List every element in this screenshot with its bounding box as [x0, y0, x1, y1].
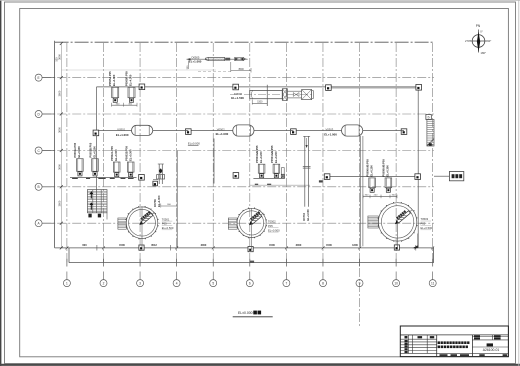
- svg-text:0°: 0°: [480, 29, 483, 33]
- dashed link line: [198, 70, 231, 72]
- pump P0508A/B: [385, 178, 392, 192]
- control room leader line: [434, 175, 449, 177]
- revision row marks: [405, 340, 408, 342]
- vessel D0508 body: [250, 90, 283, 98]
- tank T0501 centerline: [141, 207, 143, 248]
- pump P0504A/B: [273, 164, 280, 178]
- foundation dimension tick: [139, 247, 142, 250]
- tank nozzle flange: [118, 218, 126, 229]
- page right edge: [518, 0, 520, 366]
- cluster2 dimension marks: [255, 184, 258, 185]
- pump P0505A: [112, 87, 119, 102]
- dimension tick: [60, 76, 63, 79]
- vessel V0502 body: [233, 125, 254, 136]
- control room box: [449, 172, 463, 181]
- vessel D0508 centerline: [230, 94, 314, 96]
- svg-text:3600: 3600: [57, 127, 61, 133]
- pump P0501A: [77, 159, 84, 176]
- grid column 3 stub tick: [139, 259, 141, 267]
- faint top dimension line: [61, 69, 216, 71]
- grid column 2 stub tick: [102, 259, 104, 267]
- grid column 9 bubble: [356, 280, 363, 287]
- svg-text:EL+1.500: EL+1.500: [231, 96, 244, 100]
- grid column 3 bubble: [137, 280, 144, 287]
- ladder base dark mark: [429, 143, 432, 146]
- svg-text:A26100-01: A26100-01: [483, 348, 500, 352]
- control room text: [452, 174, 455, 178]
- grid column 3 chain line: [139, 43, 141, 263]
- svg-text:P0501A P05: P0501A P05: [73, 142, 77, 157]
- pipe trench line 2: [362, 136, 364, 246]
- svg-text:EL+1.000: EL+1.000: [216, 132, 229, 136]
- pipe D0709 flange box: [157, 175, 165, 179]
- svg-text:P0503A/B P05: P0503A/B P05: [255, 145, 259, 163]
- foundation dimension tick: [322, 247, 325, 250]
- grid row E bubble: [35, 74, 42, 81]
- column right/top marker: [416, 85, 422, 91]
- pipe D0704 internal arrow: [306, 138, 308, 147]
- ladder rails: [427, 120, 434, 147]
- grid row A stub: [42, 222, 54, 224]
- tank T0501 inner shell: [129, 209, 156, 236]
- dimension tick: [60, 246, 63, 249]
- svg-text:P05: P05: [421, 222, 426, 226]
- column right/lower marker: [415, 174, 421, 180]
- grid column 5 bubble: [210, 280, 217, 287]
- grid column 6 chain line: [249, 43, 251, 263]
- svg-text:EL+0.200: EL+0.200: [259, 151, 263, 163]
- svg-text:EL+1.000: EL+1.000: [116, 133, 129, 137]
- svg-text:EL+0.500: EL+0.500: [421, 226, 433, 230]
- svg-text:3600: 3600: [57, 90, 61, 96]
- stair labels: [88, 214, 91, 218]
- cluster1 dimension marks: [72, 178, 78, 179]
- grid column 9 stub tick: [359, 259, 361, 267]
- svg-text:T0502: T0502: [268, 220, 276, 224]
- tank nozzle flange: [368, 216, 378, 228]
- frame bottom line (foundation line): [55, 247, 434, 249]
- tank nozzle flange: [228, 218, 237, 229]
- svg-text:600: 600: [82, 243, 87, 247]
- tank T0501 outer shell: [126, 207, 158, 239]
- svg-text:P0506A/B P05: P0506A/B P05: [365, 159, 369, 177]
- grid column 7 chain line: [285, 43, 287, 263]
- svg-text:EL+0.300: EL+0.300: [114, 149, 118, 161]
- grid row A chain line: [42, 222, 434, 224]
- svg-text:1200: 1200: [352, 243, 358, 247]
- title block bottom strip line: [437, 352, 509, 354]
- stair rail extension: [106, 213, 108, 220]
- svg-text:EL+0.200: EL+0.200: [93, 146, 97, 158]
- pipe D0704 flange tick: [303, 166, 311, 168]
- dim tick right of pipe: [319, 180, 323, 182]
- svg-text:P0501B P05: P0501B P05: [89, 142, 93, 157]
- svg-text:EL+0.300: EL+0.300: [386, 165, 390, 177]
- vertical line grid5 area: [213, 139, 215, 184]
- top dimension line 3500: [231, 70, 251, 72]
- vessel V0503 body: [342, 125, 363, 136]
- svg-text:3000: 3000: [201, 243, 207, 247]
- pipe D0709 diamond: [159, 168, 163, 173]
- svg-text:P05: P05: [162, 222, 167, 226]
- tank T0502 bolt dots: [236, 207, 267, 238]
- pump P0505B: [128, 87, 135, 102]
- grid column 6 stub tick: [249, 259, 251, 267]
- tank T0503 outer shell: [378, 203, 416, 241]
- drawing title underline: [233, 316, 273, 318]
- page bottom edge: [0, 364, 520, 366]
- foundation dimension tick: [66, 247, 69, 250]
- svg-text:11: 11: [431, 281, 435, 285]
- grid column 1 bubble: [63, 280, 70, 287]
- ladder marker box b: [426, 115, 431, 120]
- foundation dimension tick: [395, 247, 398, 250]
- grid column 9 chain line: [359, 43, 361, 327]
- svg-text:3600: 3600: [57, 200, 61, 206]
- tank T0502 agitator bridge: [246, 210, 264, 227]
- svg-text:EL±0.000: EL±0.000: [238, 311, 253, 315]
- title block top line full: [400, 334, 508, 336]
- svg-text:EL+0.500: EL+0.500: [268, 228, 280, 232]
- svg-text:9: 9: [359, 281, 361, 285]
- grid column 8 bubble: [320, 280, 327, 287]
- svg-text:V0503: V0503: [326, 128, 334, 132]
- dimension tick: [60, 113, 63, 116]
- bottom strip texts: [440, 354, 448, 356]
- svg-text:P0508A/B P05: P0508A/B P05: [382, 159, 386, 177]
- grid row D stub: [42, 113, 54, 115]
- svg-text:PN: PN: [476, 24, 481, 28]
- grid row B chain line: [42, 186, 434, 188]
- grid column 10 chain line: [395, 43, 397, 263]
- grid row C chain line: [42, 150, 434, 152]
- vertical line above D0508: [266, 85, 268, 106]
- svg-text:EL+1.000: EL+1.000: [306, 209, 310, 221]
- tank T0501 bolt dots: [125, 206, 158, 239]
- D0709 dimension line: [161, 205, 177, 207]
- pipe D0704 riser: [304, 136, 306, 206]
- eductor D0505 body: [205, 57, 224, 60]
- stair flight divider left: [92, 190, 94, 213]
- column mid/lower marker: [233, 173, 239, 179]
- grid column 11 chain line: [432, 43, 434, 263]
- column grid3/top marker: [139, 84, 145, 90]
- svg-text:EL+0.200: EL+0.200: [369, 165, 373, 177]
- foundation dimension tick: [212, 247, 215, 250]
- column left/mid marker: [93, 130, 99, 136]
- pump P0502A: [113, 162, 120, 177]
- foundation dimension tick: [358, 247, 361, 250]
- pipe D0709 elbow tick: [153, 179, 158, 181]
- D0508 dimension line: [252, 102, 267, 104]
- tank T0503 agitator bridge: [392, 206, 413, 225]
- vessel V0501 body: [132, 125, 153, 135]
- svg-text:6: 6: [249, 281, 251, 285]
- page top edge: [0, 0, 520, 2]
- svg-text:P0502A P05: P0502A P05: [110, 146, 114, 161]
- column V0502 right marker: [291, 129, 297, 135]
- svg-text:EL+1.000: EL+1.000: [189, 59, 202, 63]
- column grid8/lower marker: [324, 174, 330, 180]
- cluster2 foundation line: [253, 178, 285, 180]
- svg-text:D0709: D0709: [153, 199, 157, 207]
- foundation dimension tick: [249, 247, 252, 250]
- grid column 7 stub tick: [285, 259, 287, 267]
- platform left column line: [96, 87, 98, 213]
- svg-text:P0504A/B P05: P0504A/B P05: [270, 145, 274, 163]
- foundation dimension tick: [175, 247, 178, 250]
- svg-text:T0501: T0501: [162, 217, 170, 221]
- title block outer frame: [400, 326, 508, 357]
- grid column 4 stub tick: [176, 259, 178, 267]
- svg-text:EL+1.000: EL+1.000: [157, 195, 161, 207]
- svg-text:EL+0.200: EL+0.200: [77, 146, 81, 158]
- vessel D0508 motor: [302, 90, 314, 100]
- pump stand small: [281, 168, 284, 178]
- svg-text:3500: 3500: [238, 68, 244, 71]
- small column marker near D0709: [153, 181, 158, 186]
- svg-text:3: 3: [139, 281, 141, 285]
- svg-text:1500: 1500: [269, 243, 275, 247]
- grid column 1 stub tick: [66, 259, 68, 267]
- cluster3 dimension line: [363, 195, 397, 197]
- cluster2 dimension line: [250, 184, 310, 186]
- eductor D0505 dark segment: [225, 58, 230, 61]
- svg-text:3512: 3512: [151, 243, 157, 247]
- tank T0502 outer shell: [237, 208, 266, 237]
- svg-text:EL+0.200: EL+0.200: [274, 151, 278, 163]
- svg-text:3000: 3000: [296, 243, 302, 247]
- ladder hatch diagonal: [427, 139, 434, 147]
- vertical line grid4 area: [176, 151, 178, 248]
- title block right cell lines: [472, 336, 508, 338]
- eductor D0505 coupling: [235, 57, 244, 60]
- tank T0502 inner shell: [240, 211, 264, 235]
- column V0501 right marker: [186, 129, 192, 135]
- pipe trench line 1: [359, 136, 361, 246]
- tank T0503 bolt dots: [378, 202, 418, 242]
- foundation dimension tick: [285, 247, 288, 250]
- grid row C bubble: [35, 147, 42, 154]
- page left edge: [0, 0, 2, 366]
- eductor D0505 leader line: [187, 58, 248, 60]
- svg-text:1500: 1500: [119, 243, 125, 247]
- svg-text:10: 10: [394, 281, 398, 285]
- title block revision area: [400, 334, 436, 336]
- grid column 2 chain line: [102, 43, 104, 263]
- svg-text:1500: 1500: [257, 102, 263, 104]
- north arrow compass: [470, 30, 487, 53]
- svg-text:90°: 90°: [487, 39, 491, 43]
- building upper platform edge: [97, 86, 419, 88]
- apron bottom line: [69, 262, 434, 264]
- svg-text:V0502: V0502: [217, 127, 225, 131]
- svg-text:EL±0.000: EL±0.000: [188, 142, 200, 146]
- grid column 7 bubble: [283, 280, 290, 287]
- pedestal below tank T0502: [248, 247, 253, 252]
- grid row E chain line: [42, 77, 434, 79]
- svg-text:EL+4.300: EL+4.300: [112, 74, 116, 86]
- dimension tick: [60, 185, 63, 188]
- column V0503 right marker: [401, 129, 407, 135]
- pedestal below tank T0501: [139, 245, 144, 250]
- svg-text:EL+1.000: EL+1.000: [324, 132, 337, 136]
- grid column 8 chain line: [322, 43, 324, 263]
- dimension tick: [60, 149, 63, 152]
- svg-text:5: 5: [212, 281, 214, 285]
- grid column 2 bubble: [100, 280, 107, 287]
- apron right edge: [433, 248, 435, 263]
- pedestal below tank T0503: [394, 245, 399, 250]
- dimension line below P0505: [112, 104, 138, 106]
- pipe D0709 top tick: [158, 163, 164, 165]
- frame top line: [55, 41, 434, 43]
- svg-text:D0704: D0704: [302, 212, 306, 220]
- tank T0502 centerline: [251, 208, 253, 249]
- column grid8/top marker: [326, 85, 332, 91]
- pump P0506A/B: [369, 178, 376, 192]
- grid row C stub: [42, 150, 54, 152]
- grid row E stub: [42, 77, 54, 79]
- vessel D0508 shaft: [287, 90, 301, 92]
- svg-text:500: 500: [55, 57, 58, 62]
- title block vertical lines: [407, 335, 409, 354]
- eductor D0505 arrow tip: [244, 58, 247, 60]
- grid column 11 stub tick: [432, 259, 434, 267]
- pump P0502B: [127, 162, 134, 177]
- stair direction arrow 1: [90, 191, 94, 198]
- svg-text:8: 8: [322, 281, 324, 285]
- grid column 8 stub tick: [322, 259, 324, 267]
- vessel D0508 bearing block: [282, 89, 287, 101]
- svg-text:EL+4.300: EL+4.300: [129, 74, 133, 86]
- grid row D chain line: [42, 113, 434, 115]
- grid column 4 bubble: [173, 280, 180, 287]
- dimension tick: [60, 42, 63, 45]
- grid column 1 chain line: [66, 43, 68, 263]
- svg-text:180°: 180°: [481, 51, 487, 55]
- vessel line through V row: [99, 129, 132, 131]
- revision header texts: [405, 336, 408, 338]
- grid column 11 bubble: [429, 280, 436, 287]
- pump P0501B: [92, 159, 99, 176]
- frame left edge: [54, 41, 56, 248]
- pipe D0709 riser: [158, 164, 160, 184]
- pipe D0704 top tick: [303, 135, 310, 137]
- svg-text:B: B: [38, 185, 40, 189]
- svg-text:T0503: T0503: [421, 217, 429, 221]
- dark mark on apron line at grid 6: [250, 261, 254, 263]
- eductor dimension riser: [188, 61, 190, 70]
- pump P0503A/B: [258, 164, 265, 178]
- stair direction arrow 2: [90, 202, 94, 209]
- svg-text:EL+0.500: EL+0.500: [162, 226, 174, 230]
- building line second: [328, 87, 418, 89]
- svg-text:4: 4: [176, 281, 178, 285]
- building lower line: [327, 176, 418, 178]
- grid column 10 bubble: [393, 280, 400, 287]
- foundation dimension tick: [102, 247, 105, 250]
- cluster1 foundation line: [70, 176, 137, 178]
- svg-text:3600: 3600: [57, 164, 61, 170]
- svg-text:P0502B P05: P0502B P05: [125, 146, 129, 161]
- tank T0501 agitator bridge: [137, 209, 156, 227]
- svg-text:7: 7: [285, 281, 287, 285]
- svg-text:EL+0.300: EL+0.300: [129, 149, 133, 161]
- grid row B bubble: [35, 183, 42, 190]
- building right column line: [417, 87, 419, 248]
- foundation dimension tick: [414, 247, 417, 250]
- svg-text:P0505B P05: P0505B P05: [125, 71, 129, 86]
- grid row D bubble: [35, 111, 42, 118]
- tank T0503 label leader: [417, 234, 419, 248]
- apron left edge: [68, 248, 70, 263]
- grid row B stub: [42, 186, 54, 188]
- grid column 10 stub tick: [395, 259, 397, 267]
- svg-text:b: b: [428, 116, 430, 120]
- stair flight divider right: [100, 190, 102, 213]
- svg-text:E: E: [38, 76, 40, 80]
- drawing stage text: [487, 343, 493, 346]
- stair well outline: [87, 190, 107, 213]
- dimension tick: [60, 222, 63, 225]
- left dimension line: [60, 44, 62, 248]
- stair treads: [88, 191, 107, 211]
- grid column 4 chain line: [176, 43, 178, 263]
- column D0508 marker: [233, 84, 239, 90]
- column grid3/lower marker: [139, 175, 145, 181]
- grid row A bubble: [35, 220, 42, 227]
- svg-text:270°: 270°: [465, 39, 471, 43]
- cell small texts: [474, 335, 480, 337]
- svg-text:P0505A P05: P0505A P05: [108, 71, 112, 86]
- grid column 5 chain line: [212, 43, 214, 263]
- tank T0503 inner shell: [381, 206, 413, 238]
- svg-text:1: 1: [66, 281, 68, 285]
- svg-text:1500: 1500: [326, 243, 332, 247]
- tank T0503 center leader: [397, 222, 399, 247]
- svg-text:P05: P05: [268, 224, 273, 228]
- grid column 6 bubble: [246, 280, 253, 287]
- ladder rungs: [427, 121, 434, 144]
- project name text block: [438, 341, 440, 344]
- foundation dimension risers: [96, 245, 98, 251]
- grid column 5 stub tick: [212, 259, 214, 267]
- foundation dimension tick: [431, 247, 434, 250]
- svg-text:V0501: V0501: [117, 128, 125, 132]
- svg-text:2: 2: [103, 281, 105, 285]
